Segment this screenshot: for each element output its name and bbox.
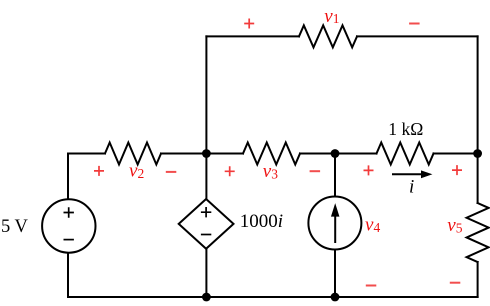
resistor V3 zigzag: [243, 143, 300, 165]
wire from node C down to resistor V5: [477, 154, 479, 204]
svg-text:v4: v4: [365, 214, 380, 235]
wire top rail right segment: [357, 35, 478, 37]
voltage source 5V circle: [42, 199, 95, 252]
minus sign inside 5V source: [64, 239, 74, 241]
wire bottom rail: [68, 296, 478, 298]
plus sign polarity 1k resistor: [364, 165, 374, 175]
svg-text:i: i: [409, 177, 414, 198]
resistor V1 zigzag: [299, 25, 357, 47]
arrow inside current source V4: [332, 205, 339, 244]
wire middle rail from left corner to resistor V2: [68, 153, 105, 155]
wire top rail left segment: [206, 35, 299, 37]
current source V4 circle: [308, 197, 361, 250]
wire from current source to bottom rail: [334, 250, 336, 297]
resistor V2 zigzag: [105, 143, 161, 165]
minus sign polarity V1: [409, 23, 420, 25]
node A junction dot middle rail left: [202, 149, 211, 158]
wire left vertical of top loop: [205, 36, 207, 153]
svg-text:5 V: 5 V: [1, 217, 29, 237]
wire middle rail right of 1k resistor: [434, 153, 478, 155]
plus sign polarity V3: [225, 166, 235, 176]
resistor V5 vertical zigzag: [467, 203, 489, 262]
wire from middle rail down to 5V source: [67, 154, 69, 199]
current i arrow under 1k resistor: [392, 171, 432, 178]
plus sign polarity V2: [94, 166, 104, 176]
node C junction dot middle rail right: [473, 149, 482, 158]
minus sign polarity V2: [166, 171, 177, 173]
minus sign polarity V5 bottom: [450, 282, 461, 284]
wire from node B down to current source V4: [334, 154, 336, 197]
svg-text:v2: v2: [129, 161, 144, 182]
minus sign polarity V4 bottom: [366, 285, 377, 287]
node E junction dot bottom rail right: [331, 293, 340, 302]
resistor 1 kOhm zigzag: [377, 143, 434, 165]
wire from resistor V5 to bottom rail: [477, 262, 479, 297]
wire right vertical of top loop: [477, 36, 479, 153]
svg-text:1 kΩ: 1 kΩ: [388, 119, 423, 139]
wire from node A down to dependent source: [205, 154, 207, 200]
wire middle rail between V3 and 1k resistor: [300, 153, 377, 155]
plus sign inside dependent source: [201, 207, 211, 217]
minus sign polarity V3: [310, 170, 321, 172]
node D junction dot bottom rail left: [202, 293, 211, 302]
dependent source 1000i diamond: [179, 199, 234, 249]
plus sign inside 5V source: [64, 207, 74, 217]
plus sign polarity V1: [244, 19, 254, 29]
minus sign inside dependent source: [201, 234, 211, 236]
svg-text:1000i: 1000i: [240, 211, 283, 232]
wire middle rail between V2 and V3: [161, 153, 243, 155]
svg-text:v5: v5: [447, 215, 462, 236]
plus sign polarity V5 top: [452, 165, 462, 175]
wire from dependent source to bottom rail: [205, 249, 207, 297]
node B junction dot middle rail center: [331, 149, 340, 158]
wire from 5V source to bottom rail: [67, 254, 69, 298]
svg-text:v1: v1: [324, 6, 339, 27]
